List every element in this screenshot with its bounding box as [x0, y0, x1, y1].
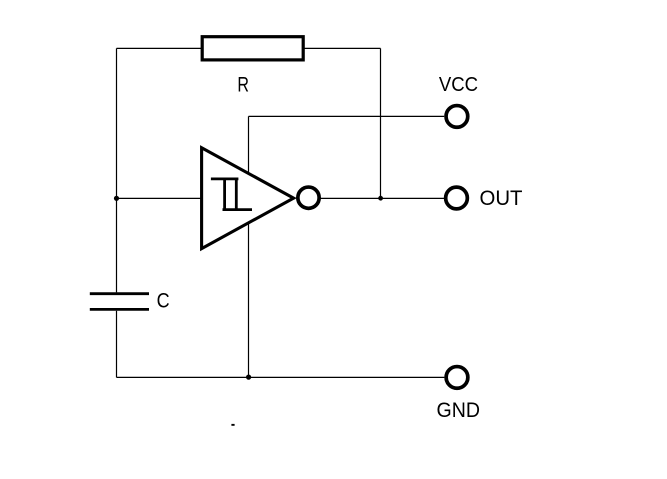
svg-text:OUT: OUT: [480, 186, 523, 210]
svg-text:R: R: [237, 73, 249, 96]
svg-text:GND: GND: [437, 398, 481, 422]
svg-text:C: C: [157, 290, 170, 313]
svg-text:VCC: VCC: [439, 73, 478, 96]
